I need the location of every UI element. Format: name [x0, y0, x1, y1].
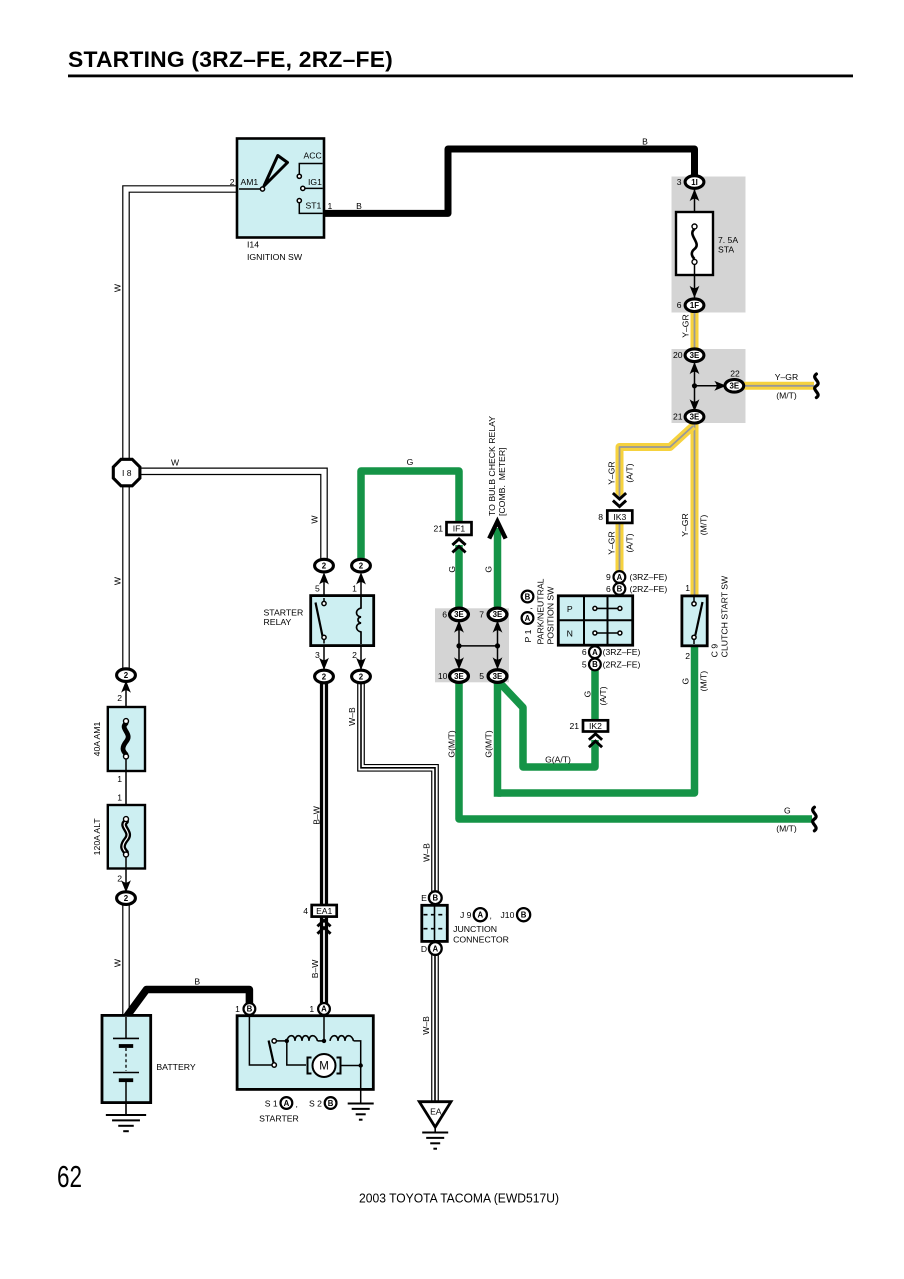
svg-text:1: 1 — [117, 774, 122, 784]
svg-text:W: W — [113, 283, 123, 292]
svg-text:2: 2 — [230, 177, 235, 187]
svg-text:W–B: W–B — [347, 707, 357, 726]
svg-text:CONNECTOR: CONNECTOR — [453, 934, 509, 944]
wire G 3E5 down to clutch rail — [494, 679, 502, 797]
wire G IF1 to 3E6 — [455, 545, 463, 612]
svg-text:A: A — [477, 911, 483, 920]
wire B-W EA1 to starter A — [320, 917, 328, 1006]
ground below battery — [125, 1103, 127, 1114]
svg-text:TO BULB CHECK RELAY: TO BULB CHECK RELAY — [487, 416, 497, 516]
svg-text:3E: 3E — [454, 610, 464, 619]
svg-text:3E: 3E — [493, 672, 503, 681]
svg-text:N: N — [567, 629, 573, 639]
svg-text:ACC: ACC — [304, 151, 322, 161]
wire Y-GR A/T branch to IK3 — [620, 426, 694, 497]
svg-text:5: 5 — [582, 659, 587, 669]
svg-text:B: B — [642, 137, 648, 147]
svg-text:STARTING (3RZ–FE, 2RZ–FE): STARTING (3RZ–FE, 2RZ–FE) — [68, 47, 393, 72]
circled pin B (2RZ-FE) at PNP top — [614, 583, 626, 595]
circled B in P1 side label — [522, 591, 534, 603]
svg-text:B–W: B–W — [311, 805, 321, 825]
svg-text:G: G — [447, 566, 457, 573]
svg-text:POSITION SW: POSITION SW — [546, 586, 556, 645]
circled B pin E of junction connector — [429, 891, 442, 904]
svg-text:9: 9 — [606, 572, 611, 582]
svg-text:8: 8 — [598, 512, 603, 522]
IK3 connector — [598, 493, 632, 523]
starter — [237, 1016, 374, 1120]
IF1 connector — [433, 522, 471, 552]
wire W I8 down to fuse AM1 — [122, 481, 130, 669]
svg-text:4: 4 — [303, 906, 308, 916]
junction connector — [422, 905, 448, 941]
svg-text:,: , — [490, 911, 492, 921]
svg-text:G: G — [784, 805, 791, 815]
connector 3E pin 20 — [685, 349, 704, 362]
svg-text:(A/T): (A/T) — [598, 686, 608, 705]
wire G clutch SW down — [498, 645, 695, 793]
svg-text:A: A — [432, 944, 438, 953]
svg-text:B: B — [592, 660, 598, 669]
svg-text:C 9: C 9 — [710, 644, 720, 658]
svg-text:62: 62 — [57, 1160, 82, 1194]
svg-text:M: M — [319, 1061, 329, 1073]
svg-text:G: G — [583, 690, 593, 697]
svg-text:Y–GR: Y–GR — [680, 314, 690, 337]
svg-text:(3RZ–FE): (3RZ–FE) — [603, 647, 641, 657]
svg-text:40A AM1: 40A AM1 — [92, 721, 102, 756]
svg-text:(A/T): (A/T) — [624, 463, 634, 482]
svg-text:S 1: S 1 — [265, 1098, 278, 1108]
svg-text:S 2: S 2 — [309, 1098, 322, 1108]
EA1 connector — [303, 905, 336, 934]
svg-text:1: 1 — [235, 1004, 240, 1014]
svg-text:2003 TOYOTA TACOMA (EWD517U): 2003 TOYOTA TACOMA (EWD517U) — [359, 1191, 559, 1206]
svg-text:2: 2 — [124, 894, 129, 903]
svg-text:E: E — [421, 893, 427, 903]
svg-text:J 9: J 9 — [460, 910, 472, 920]
svg-text:W: W — [171, 457, 180, 467]
starter relay — [311, 572, 374, 670]
ground at starter motor — [360, 1060, 362, 1103]
circled B of S2 label — [325, 1097, 337, 1109]
wire Y-GR IK3 to PNP SW — [616, 523, 624, 597]
svg-text:STARTER: STARTER — [264, 607, 304, 617]
circled B of J10 junction connector — [517, 908, 530, 921]
svg-text:3E: 3E — [493, 610, 503, 619]
svg-text:EA1: EA1 — [316, 906, 332, 916]
EA triangle ground — [419, 1102, 451, 1149]
svg-text:Y–GR: Y–GR — [607, 531, 617, 554]
svg-text:STA: STA — [718, 245, 734, 255]
svg-text:P 1: P 1 — [523, 629, 533, 642]
svg-text:B: B — [194, 977, 200, 987]
svg-text:RELAY: RELAY — [264, 617, 292, 627]
connector 1F pin 6 — [685, 299, 704, 312]
svg-text:,: , — [523, 607, 533, 609]
svg-text:EA: EA — [430, 1107, 442, 1117]
3E junction block top — [690, 358, 727, 413]
svg-text:W–B: W–B — [421, 1016, 431, 1035]
rotated labels — [113, 283, 709, 1035]
svg-text:IG1: IG1 — [308, 177, 322, 187]
svg-text:B: B — [432, 894, 438, 903]
svg-text:5: 5 — [479, 671, 484, 681]
circled pin B (2RZ-FE) at PNP bottom — [589, 659, 601, 671]
svg-text:2: 2 — [359, 561, 364, 570]
svg-text:2: 2 — [322, 561, 327, 570]
svg-text:CLUTCH START SW: CLUTCH START SW — [720, 575, 730, 657]
svg-text:A: A — [617, 573, 623, 582]
svg-text:ST1: ST1 — [306, 200, 322, 210]
svg-text:IK2: IK2 — [589, 721, 602, 731]
svg-text:J10: J10 — [501, 910, 515, 920]
wire B-W relay pin3 to EA1 — [320, 679, 328, 905]
svg-text:AM1: AM1 — [241, 177, 259, 187]
svg-text:2: 2 — [124, 671, 129, 680]
svg-text:2: 2 — [117, 874, 122, 884]
svg-text:21: 21 — [433, 524, 443, 534]
svg-text:I14: I14 — [247, 240, 259, 250]
wire G relay pin1 to IF1 — [361, 471, 459, 560]
svg-text:B: B — [617, 585, 623, 594]
svg-text:1: 1 — [685, 583, 690, 593]
svg-text:,: , — [296, 1099, 298, 1109]
svg-text:G(M/T): G(M/T) — [484, 730, 494, 757]
svg-text:B: B — [356, 201, 362, 211]
svg-text:10: 10 — [438, 671, 448, 681]
connector 3E pin 7 — [488, 608, 507, 621]
connector 2 at relay pin 1 — [352, 559, 371, 572]
circled B pin 1 of starter — [244, 1003, 256, 1015]
svg-text:(2RZ–FE): (2RZ–FE) — [630, 584, 668, 594]
svg-text:7: 7 — [479, 609, 484, 619]
fuse 7.5A STA — [676, 182, 713, 300]
clutch start SW — [682, 596, 707, 646]
svg-text:6: 6 — [677, 300, 682, 310]
svg-text:(2RZ–FE): (2RZ–FE) — [603, 659, 641, 669]
horizontal labels — [117, 137, 798, 1110]
svg-text:G: G — [680, 677, 690, 684]
svg-text:I 8: I 8 — [122, 468, 132, 478]
svg-text:(M/T): (M/T) — [776, 391, 797, 401]
svg-text:(M/T): (M/T) — [698, 515, 708, 536]
svg-text:3E: 3E — [690, 413, 700, 422]
svg-text:IGNITION SW: IGNITION SW — [247, 252, 303, 262]
connector 3E pin 10 — [450, 670, 469, 683]
fuse 40A AM1 — [108, 678, 145, 771]
circled A of J9 junction connector — [474, 908, 487, 921]
svg-text:6: 6 — [442, 609, 447, 619]
wire W-B junction connector to EA ground — [431, 953, 439, 1103]
svg-text:G(A/T): G(A/T) — [545, 755, 571, 765]
svg-text:1: 1 — [328, 201, 333, 211]
squiggle Y-GR M/T — [815, 374, 818, 398]
svg-text:(M/T): (M/T) — [776, 823, 797, 833]
connector 2 at relay pin 3 — [315, 670, 334, 683]
wire B ignition to fuse STA — [324, 149, 695, 213]
svg-text:20: 20 — [673, 350, 683, 360]
svg-text:P: P — [567, 604, 573, 614]
svg-text:2: 2 — [359, 672, 364, 681]
wire G 3E5 diagonal to G(A/T) rail to IK2 — [499, 682, 595, 767]
circled A pin 1 of starter — [318, 1003, 330, 1015]
squiggle G M/T — [813, 807, 816, 831]
svg-text:3E: 3E — [729, 382, 739, 391]
wire Y-GR 1F to 3E20 — [691, 305, 699, 355]
I8 octagon — [113, 459, 140, 486]
connector 3E pin 5 — [488, 670, 507, 683]
svg-text:22: 22 — [730, 369, 740, 379]
svg-text:A: A — [284, 1099, 290, 1108]
svg-text:2: 2 — [322, 672, 327, 681]
circled A in P1 side label — [522, 612, 534, 624]
PNP switch — [558, 596, 632, 645]
circled A pin D of junction connector — [429, 942, 442, 955]
svg-text:Y–GR: Y–GR — [775, 372, 798, 382]
circled A of S1 label — [281, 1097, 293, 1109]
connector 2 at relay pin 2 — [352, 670, 371, 683]
svg-text:21: 21 — [673, 412, 683, 422]
svg-text:A: A — [592, 648, 598, 657]
connector 2 at relay pin 5 — [315, 559, 334, 572]
wire Y-GR 3E22 exit right — [744, 382, 814, 390]
svg-text:1F: 1F — [690, 301, 699, 310]
svg-text:3E: 3E — [690, 351, 700, 360]
svg-text:B: B — [247, 1005, 253, 1014]
svg-text:W: W — [113, 958, 123, 967]
wire W ignition to I8 — [126, 189, 237, 463]
svg-text:W: W — [310, 515, 320, 524]
svg-text:BATTERY: BATTERY — [156, 1062, 195, 1072]
battery — [102, 1015, 151, 1131]
arrow to bulb check relay — [494, 528, 502, 612]
svg-text:G: G — [407, 457, 414, 467]
svg-text:5: 5 — [315, 584, 320, 594]
svg-text:1: 1 — [352, 584, 357, 594]
svg-text:W: W — [113, 576, 123, 585]
connector 3E pin 6 — [450, 608, 469, 621]
svg-text:W–B: W–B — [421, 843, 431, 862]
svg-text:A: A — [321, 1005, 327, 1014]
svg-text:3: 3 — [677, 177, 682, 187]
svg-text:A: A — [525, 614, 531, 623]
circled pin A (3RZ-FE) at PNP top — [614, 571, 626, 583]
wire G 3E10 down to bottom rail — [459, 679, 812, 819]
connector 1I pin 3 — [685, 176, 704, 189]
wire G PNP B to IK2 — [591, 670, 599, 721]
svg-text:(M/T): (M/T) — [698, 671, 708, 692]
svg-text:Y–GR: Y–GR — [680, 513, 690, 536]
svg-text:120A ALT: 120A ALT — [92, 818, 102, 856]
svg-text:B–W: B–W — [310, 959, 320, 979]
svg-text:(3RZ–FE): (3RZ–FE) — [630, 572, 668, 582]
svg-text:B: B — [521, 911, 527, 920]
ignition switch I14 — [237, 139, 324, 238]
svg-text:3: 3 — [315, 650, 320, 660]
svg-text:JUNCTION: JUNCTION — [453, 924, 497, 934]
3E junction block mid — [454, 618, 502, 670]
circled pin A (3RZ-FE) at PNP bottom — [589, 646, 601, 658]
svg-text:1: 1 — [117, 793, 122, 803]
svg-text:7. 5A: 7. 5A — [718, 235, 738, 245]
gray box fuse STA — [672, 177, 746, 313]
svg-text:G: G — [484, 566, 494, 573]
svg-text:STARTER: STARTER — [259, 1114, 299, 1124]
connector 2 above fuse AM1 — [117, 669, 136, 682]
svg-text:IF1: IF1 — [453, 524, 466, 534]
svg-text:IK3: IK3 — [613, 512, 626, 522]
wire B battery to starter — [127, 990, 249, 1017]
connector 2 below fuse ALT — [117, 892, 136, 905]
svg-text:G(M/T): G(M/T) — [447, 730, 457, 757]
wire W fuse ALT to battery — [122, 898, 130, 1017]
svg-text:21: 21 — [569, 721, 579, 731]
connector 3E pin 21 — [685, 410, 704, 423]
svg-text:1: 1 — [309, 1004, 314, 1014]
svg-text:[COMB. METER]: [COMB. METER] — [497, 447, 507, 516]
link between fuses — [125, 771, 127, 805]
connector 3E pin 22 — [725, 380, 744, 393]
svg-text:Y–GR: Y–GR — [607, 461, 617, 484]
svg-text:2: 2 — [685, 651, 690, 661]
gray box 3E top — [672, 349, 746, 423]
wire Y-GR 3E21 to clutch SW — [691, 417, 699, 596]
svg-text:B: B — [328, 1099, 334, 1108]
gray box 3E mid — [435, 608, 509, 682]
svg-text:3E: 3E — [454, 672, 464, 681]
wire W I8 to starter relay pin5 — [138, 471, 324, 566]
svg-text:6: 6 — [582, 647, 587, 657]
svg-text:2: 2 — [117, 693, 122, 703]
fuse 120A ALT — [108, 805, 145, 893]
svg-text:D: D — [421, 944, 427, 954]
svg-text:2: 2 — [352, 650, 357, 660]
wire W-B relay pin2 to junction connector — [361, 679, 435, 894]
svg-text:(A/T): (A/T) — [624, 533, 634, 552]
svg-text:6: 6 — [606, 584, 611, 594]
svg-text:B: B — [525, 592, 531, 601]
svg-text:1I: 1I — [691, 178, 698, 187]
IK2 connector — [569, 720, 608, 747]
svg-text:PARK/NEUTRAL: PARK/NEUTRAL — [536, 578, 546, 644]
